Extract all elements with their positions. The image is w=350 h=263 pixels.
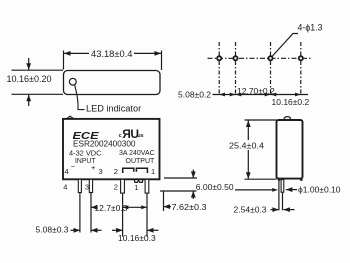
dimension 6.00 arrows [192, 170, 194, 179]
baseline arrowheads [219, 93, 301, 97]
svg-text:12.70±0.2: 12.70±0.2 [237, 86, 275, 96]
svg-text:10.16±0.3: 10.16±0.3 [118, 233, 156, 243]
dimension 2.54 arrows [271, 209, 279, 211]
hole pattern centerline [208, 57, 313, 59]
hole B centerline vertical [235, 42, 237, 95]
hole C [268, 56, 272, 60]
dia 1.00 leader [286, 189, 297, 191]
pin3 extension line [90, 193, 92, 233]
svg-text:ϕ1.00±0.10: ϕ1.00±0.10 [298, 184, 341, 194]
svg-text:25.4±0.4: 25.4±0.4 [229, 140, 264, 150]
front view top bump [67, 116, 75, 119]
svg-text:4: 4 [65, 167, 69, 176]
svg-text:6.00±0.50: 6.00±0.50 [196, 182, 234, 192]
dimension 25.4 line [247, 121, 249, 141]
side view pin [281, 180, 284, 193]
svg-text:OUTPUT: OUTPUT [126, 158, 156, 165]
dimension 43.18 extension line left [63, 51, 65, 70]
output contact symbol [123, 168, 148, 173]
dimension 10.16 arrow bottom [28, 95, 30, 106]
dimension 43.18 line [64, 52, 89, 54]
svg-text:−: − [71, 162, 76, 171]
svg-text:12.7±0.3: 12.7±0.3 [94, 203, 127, 213]
svg-text:4: 4 [63, 183, 67, 192]
side view top dome [284, 117, 291, 120]
dimension 10.16 arrows [112, 229, 123, 231]
hole A [217, 56, 221, 60]
svg-text:us: us [137, 133, 143, 139]
svg-text:4-ϕ1.3: 4-ϕ1.3 [298, 23, 323, 33]
svg-text:LED indicator: LED indicator [86, 104, 141, 114]
pin 2 [121, 179, 125, 193]
svg-text:3: 3 [99, 167, 103, 176]
svg-text:+: + [91, 163, 96, 172]
hole leader 4-dia1.3 [272, 34, 298, 57]
svg-text:2: 2 [114, 167, 118, 176]
dimension 10.16 arrow top [28, 58, 30, 70]
dimension 12.7 left arrow [91, 206, 97, 208]
LED indicator circle [69, 78, 76, 85]
dimension 6.00 upper extension [164, 177, 197, 179]
hole dimension baseline [213, 94, 309, 96]
top view body [64, 71, 161, 95]
pin2 extension line [122, 194, 124, 237]
svg-text:1: 1 [134, 183, 138, 192]
LED leader line [75, 85, 85, 110]
svg-text:1: 1 [151, 167, 155, 176]
svg-text:3A 240VAC: 3A 240VAC [119, 150, 155, 157]
dimension 6.00 lower extension [160, 190, 197, 192]
svg-text:5.08±0.2: 5.08±0.2 [178, 89, 211, 99]
pin 4 [78, 179, 81, 192]
dimension 7.62 right arrow [164, 206, 172, 208]
dimension 12.7/7.62 shared line [123, 206, 147, 208]
hole A centerline vertical [218, 42, 220, 95]
pin 3 [89, 179, 92, 192]
dimension 25.4 top extension [245, 119, 277, 121]
dimension 10.16 extension line bottom [12, 93, 64, 95]
pin4 extension line [79, 193, 81, 233]
svg-text:43.18±0.4: 43.18±0.4 [91, 49, 133, 59]
side pin center extension [282, 192, 284, 210]
hole C centerline vertical [270, 42, 272, 95]
side view body [277, 120, 303, 179]
side view left nub [278, 179, 280, 181]
svg-text:5.08±0.3: 5.08±0.3 [36, 225, 69, 235]
svg-text:2: 2 [114, 183, 118, 192]
front view body [63, 119, 160, 179]
svg-text:10.16±0.20: 10.16±0.20 [7, 74, 52, 84]
svg-text:2.54±0.3: 2.54±0.3 [234, 205, 267, 215]
svg-text:7.62±0.3: 7.62±0.3 [172, 202, 207, 212]
dimension 10.16 extension line top [12, 69, 64, 71]
side 2.54 left extension [278, 181, 280, 211]
hole B [233, 56, 237, 60]
front view bottom key protrusion [134, 179, 143, 182]
dimension 43.18 extension line right [161, 51, 163, 71]
svg-text:3: 3 [85, 183, 89, 192]
pin1 extension line [146, 194, 148, 237]
hole D [299, 56, 303, 60]
svg-text:10.16±0.2: 10.16±0.2 [272, 97, 310, 107]
dimension 5.08 arrows [71, 229, 81, 231]
hole D centerline vertical [300, 42, 302, 95]
pin end reference line [235, 189, 272, 191]
pin 1 [145, 179, 149, 193]
svg-text:ESR2002400300: ESR2002400300 [73, 138, 136, 148]
dimension 25.4 bottom extension [245, 178, 277, 180]
right reference extension line [163, 191, 165, 211]
side view right nub [300, 179, 302, 181]
